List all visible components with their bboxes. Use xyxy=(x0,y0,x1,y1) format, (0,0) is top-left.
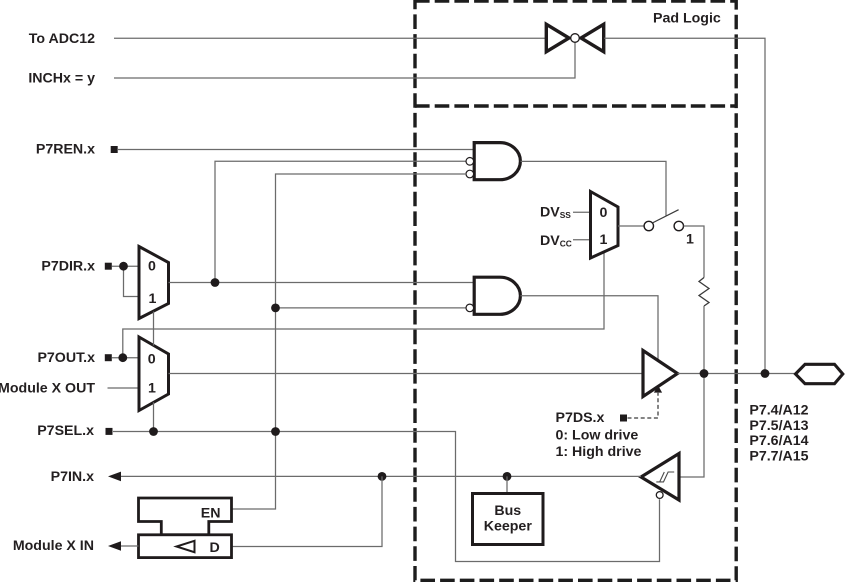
mux M1 (P7DIR select) xyxy=(139,247,169,319)
svg-text:Keeper: Keeper xyxy=(484,519,533,535)
svg-text:P7DIR.x: P7DIR.x xyxy=(41,259,95,275)
wire resistor R1 to pad node and schmitt input xyxy=(679,306,704,477)
terminal square P7DS.x xyxy=(620,415,627,422)
wire DVss to mux M3 input 0 xyxy=(573,211,591,213)
wire P7IN branch to D latch input xyxy=(232,476,382,546)
svg-text:1: 1 xyxy=(686,231,694,247)
bubble U1 input 2 xyxy=(466,158,474,166)
svg-text:P7.6/A14: P7.6/A14 xyxy=(749,433,808,449)
junction dot pad node at ADC branch xyxy=(761,369,770,378)
wire U1 output to pull switch control xyxy=(521,161,667,215)
wire P7OUT.x to mux M2 input 0 xyxy=(112,357,140,359)
wire riser from M1 output to AND gate U1 bubble input xyxy=(215,161,466,282)
wire mux M2 output to output driver xyxy=(169,373,644,375)
transmission gate right triangle xyxy=(581,24,604,51)
svg-text:INCHx = y: INCHx = y xyxy=(28,71,95,87)
terminal square P7SEL.x xyxy=(106,428,113,435)
terminal square P7OUT.x xyxy=(105,354,112,361)
schmitt enable bubble xyxy=(656,492,663,499)
svg-text:Module X IN: Module X IN xyxy=(13,538,94,554)
D latch clock triangle xyxy=(177,541,195,552)
wire DVcc to mux M3 input 1 xyxy=(573,239,591,241)
wire U2 output to output driver enable xyxy=(521,296,659,360)
svg-text:P7REN.x: P7REN.x xyxy=(36,142,95,158)
junction dot on P7OUT.x xyxy=(118,353,127,362)
wire transmission gate output to pad node xyxy=(604,38,765,373)
wire P7SEL.x to mux selects xyxy=(153,312,155,432)
junction dot P7SEL at mux select riser xyxy=(149,427,158,436)
bubble U1 input 3 xyxy=(466,170,474,178)
svg-text:Bus: Bus xyxy=(494,503,521,519)
svg-text:1: 1 xyxy=(149,291,157,307)
output driver U3 xyxy=(643,351,678,397)
wire mux M1 output to AND gates xyxy=(169,282,475,284)
wire branch to AND gate U2 bubble input xyxy=(276,307,467,309)
wire bus keeper stub xyxy=(506,476,508,493)
svg-text:Pad Logic: Pad Logic xyxy=(653,11,721,27)
svg-text:0: Low drive: 0: Low drive xyxy=(556,427,639,443)
junction dot P7SEL at EN riser xyxy=(271,427,280,436)
EN latch xyxy=(139,498,232,535)
D latch xyxy=(139,535,232,558)
svg-text:P7IN.x: P7IN.x xyxy=(51,469,94,485)
svg-text:P7.7/A15: P7.7/A15 xyxy=(749,449,808,465)
svg-text:1: High drive: 1: High drive xyxy=(556,444,642,460)
wire mux M3 output to pull switch xyxy=(618,225,644,227)
junction dot on P7DIR.x xyxy=(119,262,128,271)
svg-text:P7.4/A12: P7.4/A12 xyxy=(749,403,808,419)
AND gate U1 (3-input, pull enable) xyxy=(474,143,520,180)
junction dot P7IN at D latch branch xyxy=(378,472,387,481)
pull enable switch contact right xyxy=(674,221,683,230)
wire INCHx control to transmission gate bubble xyxy=(114,43,575,78)
wire Module X OUT to mux M2 input 1 xyxy=(108,387,140,389)
svg-text:D: D xyxy=(210,540,220,556)
svg-text:P7OUT.x: P7OUT.x xyxy=(37,350,95,366)
junction dot P7IN at bus keeper xyxy=(503,472,512,481)
transmission gate left triangle xyxy=(546,24,569,51)
wire D latch to Module X IN xyxy=(121,545,139,547)
svg-text:P7.5/A13: P7.5/A13 xyxy=(749,418,808,434)
terminal square P7REN.x xyxy=(111,146,118,153)
arrow P7IN.x output xyxy=(108,472,121,482)
junction dot on M1 output xyxy=(211,278,220,287)
svg-text:To ADC12: To ADC12 xyxy=(29,31,95,47)
wire P7REN.x to AND gate U1 input xyxy=(118,149,474,151)
wire P7OUT.x to pull direction mux M3 select xyxy=(123,252,604,358)
dashed wire P7DS.x drive strength control xyxy=(628,393,659,418)
svg-text:P7DS.x: P7DS.x xyxy=(556,410,605,426)
wire P7SEL.x main run to schmitt enable xyxy=(113,432,660,562)
svg-text:1: 1 xyxy=(600,232,608,248)
svg-text:1: 1 xyxy=(148,381,156,397)
mux M3 (pull direction select) xyxy=(591,192,619,259)
junction dot pad node at resistor xyxy=(700,369,709,378)
bus keeper box xyxy=(473,494,544,545)
wire P7DIR.x bypass to mux M1 input 1 xyxy=(124,266,140,296)
dashed divider line below transmission-gate section xyxy=(415,104,736,107)
resistor R1 (pullup/pulldown) xyxy=(699,278,709,307)
svg-text:Module X OUT: Module X OUT xyxy=(0,380,95,396)
junction dot on P7SEL riser at U2 branch xyxy=(271,304,280,313)
pull enable switch contact left xyxy=(644,221,653,230)
schmitt trigger input buffer U4 xyxy=(641,454,679,501)
wire output driver to pad xyxy=(678,373,796,375)
transmission gate bubble xyxy=(571,34,580,43)
svg-text:EN: EN xyxy=(201,506,221,522)
wire switch to resistor R1 xyxy=(684,226,704,278)
wire P7SEL.x riser to AND bubbles and EN latch xyxy=(232,174,466,509)
svg-text:0: 0 xyxy=(148,351,156,367)
terminal square P7DIR.x xyxy=(105,263,112,270)
arrow Module X IN output xyxy=(108,541,121,551)
wire To ADC12 to transmission gate xyxy=(114,37,546,39)
svg-text:0: 0 xyxy=(148,259,156,275)
wire schmitt output to P7IN.x xyxy=(121,475,641,477)
wire P7DIR.x to mux M1 input 0 xyxy=(112,265,140,267)
svg-text:P7SEL.x: P7SEL.x xyxy=(37,423,94,439)
pad hexagon xyxy=(796,364,843,383)
hysteresis symbol xyxy=(656,472,674,482)
bubble U2 input 2 xyxy=(466,304,474,312)
AND gate U2 (2-input, output driver enable) xyxy=(474,277,520,314)
mux M2 (P7OUT select) xyxy=(139,337,169,411)
pull enable switch arm xyxy=(652,210,678,223)
svg-text:0: 0 xyxy=(600,205,608,221)
Pad Logic dashed boundary box xyxy=(415,1,736,580)
arrowhead P7DS control into driver xyxy=(654,385,662,392)
